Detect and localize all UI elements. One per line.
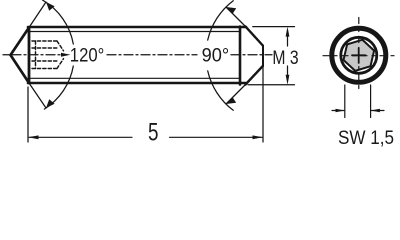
SW right arrow line <box>371 110 384 112</box>
M3 up arrowhead <box>286 27 290 37</box>
90deg dimension arc upper segment <box>208 1 234 40</box>
hex socket hidden line bottom flat <box>32 68 57 70</box>
M3 dimension line lower part <box>287 66 289 75</box>
end view inner circle (thread minor / chamfer) <box>341 37 377 73</box>
cone base line <box>28 28 31 84</box>
hex socket hidden line vertical (socket mouth) <box>35 41 37 69</box>
120deg arc top arrowhead <box>46 2 55 11</box>
length dimension left arrowhead <box>28 135 39 139</box>
hex socket hidden line lower inner <box>32 60 59 62</box>
SW left extension line <box>344 85 346 118</box>
120deg dimension bottom leg <box>29 83 46 108</box>
right point truncation edge <box>262 46 264 67</box>
cone point left end <box>11 28 30 84</box>
120deg dimension arc lower segment <box>44 66 73 109</box>
90deg dimension bottom leg <box>226 85 246 105</box>
hex socket drill cone lower hidden edge <box>57 59 64 69</box>
90deg arc bottom arrowhead <box>226 97 236 104</box>
hex socket hidden line upper inner <box>32 47 59 49</box>
hex socket (end view) <box>342 37 376 74</box>
svg-text:M 3: M 3 <box>272 47 298 69</box>
svg-text:120°: 120° <box>70 44 105 66</box>
svg-text:SW 1,5: SW 1,5 <box>338 128 394 149</box>
screw body top thread line (minor diameter) <box>30 31 240 33</box>
length dimension line right segment <box>170 136 263 138</box>
wire centerline stub left of cone apex <box>3 54 10 56</box>
length dimension line left segment <box>29 136 132 138</box>
SW right extension line <box>370 85 372 118</box>
end view vertical centerline <box>358 18 360 94</box>
120deg dimension arc <box>42 0 73 44</box>
screw body top outline (major diameter) <box>28 26 246 29</box>
center cross vertical bar <box>358 48 360 63</box>
right chamfer top edge <box>246 27 263 46</box>
SW left arrowhead <box>336 109 345 113</box>
hex socket drill cone upper hidden edge <box>57 41 64 51</box>
end view outer circle (thread major diameter) <box>332 28 386 82</box>
SW right arrowhead <box>371 109 380 113</box>
SW left arrow line <box>332 110 344 112</box>
svg-text:5: 5 <box>148 118 159 146</box>
length dimension right extension line <box>262 66 264 142</box>
end view horizontal centerline <box>323 55 395 57</box>
hex socket hidden line top flat <box>32 40 57 42</box>
length dimension right arrowhead <box>253 135 264 139</box>
right end face line <box>239 27 242 85</box>
svg-text:90°: 90° <box>202 44 230 66</box>
M3 bottom extension line <box>248 84 295 86</box>
screw body bottom outline (major diameter) <box>28 82 246 85</box>
M3 dimension line upper part <box>287 36 289 46</box>
90deg arc top arrowhead <box>226 7 236 14</box>
screw body bottom thread line (minor diameter) <box>30 77 240 79</box>
length dimension left extension line <box>27 87 29 142</box>
M3 down arrowhead <box>286 75 290 85</box>
90deg dimension arc lower segment <box>208 71 234 110</box>
screw axis centerline <box>12 54 272 56</box>
120deg dimension top leg <box>29 2 46 28</box>
junction arrowhead on centerline before 120 label <box>61 53 71 57</box>
90deg dimension top leg <box>226 7 246 27</box>
center cross horizontal bar <box>352 54 366 56</box>
right chamfer bottom edge <box>246 66 263 85</box>
120deg arc bottom arrowhead <box>46 99 55 108</box>
M3 top extension line <box>253 26 295 28</box>
